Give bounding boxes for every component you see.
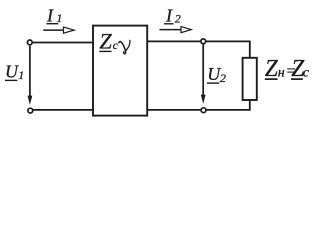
terminal bottom-left [28, 108, 33, 113]
svg-text:c: c [113, 38, 119, 52]
terminal top-right [201, 39, 206, 44]
svg-text:U: U [5, 61, 19, 81]
terminal bottom-right [201, 108, 206, 113]
label Zc,gamma [99, 28, 130, 53]
wire bottom-left [33, 109, 93, 111]
svg-text:Z: Z [99, 28, 112, 53]
voltage arrow U2 [201, 44, 206, 104]
svg-text:Z: Z [265, 56, 279, 82]
current arrow I2 [159, 27, 191, 33]
label U1 [5, 61, 24, 82]
label I2 [164, 5, 181, 25]
label I1 [46, 5, 62, 25]
current arrow I1 [43, 27, 74, 33]
label Zn=Zc [265, 56, 310, 82]
load impedance Zn [243, 58, 257, 100]
svg-text:I: I [165, 5, 173, 25]
voltage arrow U1 [28, 46, 33, 105]
label U2 [207, 64, 226, 85]
svg-text:c: c [303, 66, 310, 81]
wire top-left [33, 42, 93, 44]
svg-text:1: 1 [56, 11, 62, 25]
wire bottom-right [147, 100, 250, 110]
terminal top-left [27, 40, 32, 45]
svg-text:1: 1 [18, 68, 24, 82]
two-port network box U1 [93, 26, 147, 116]
svg-text:н: н [278, 65, 285, 80]
svg-text:2: 2 [175, 11, 181, 25]
svg-text:I: I [46, 5, 54, 25]
wire top-right [147, 41, 250, 57]
svg-text:2: 2 [220, 71, 226, 85]
